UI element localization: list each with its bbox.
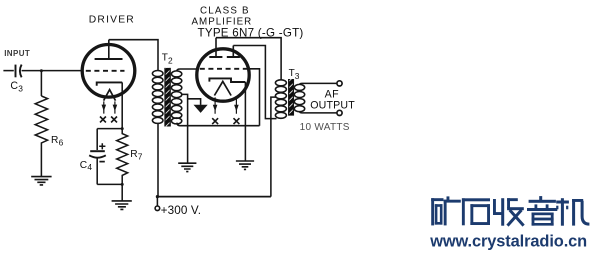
filament of driver xyxy=(104,90,116,101)
wire input stub xyxy=(3,70,13,72)
wire T2 secondary bottom to grid 2 xyxy=(177,123,260,126)
svg-text:7: 7 xyxy=(138,152,143,162)
wire T2 secondary top to grid xyxy=(177,69,198,71)
wire B+ rail xyxy=(157,196,271,198)
glyph YIN xyxy=(539,196,542,201)
capacitor C3 xyxy=(15,65,17,78)
grid of 6N7 (dashed) xyxy=(200,68,249,70)
resistor R7 xyxy=(117,129,128,185)
glyph SHOU xyxy=(493,199,496,215)
X mark heater 2 xyxy=(234,118,240,124)
ground (below R7) xyxy=(112,201,132,210)
plate 1 of 6N7 xyxy=(209,56,222,58)
wire cathode down to ground xyxy=(244,82,246,161)
svg-text:T: T xyxy=(162,53,168,64)
ground (below R6) xyxy=(31,177,51,185)
svg-text:T: T xyxy=(289,68,295,79)
chassis arrow xyxy=(194,105,208,113)
svg-text:AF: AF xyxy=(325,88,340,100)
wire T3 secondary bottom to terminal xyxy=(300,112,337,113)
glyph KUANG xyxy=(431,198,443,201)
wire plate1 to T3 primary top xyxy=(216,38,281,80)
transformer T3 core xyxy=(289,79,294,116)
tube V1 driver envelope xyxy=(82,45,135,98)
wire to ground xyxy=(121,184,123,200)
ground (cathode) xyxy=(236,161,254,169)
transformer T3 secondary xyxy=(294,84,304,90)
svg-text:INPUT: INPUT xyxy=(4,49,30,58)
transformer T2 primary xyxy=(152,71,163,77)
svg-text:+300 V.: +300 V. xyxy=(161,204,202,217)
wire network bottom xyxy=(97,183,122,185)
tube V2 class B envelope xyxy=(197,49,249,101)
wire junction down to R6 xyxy=(40,71,42,96)
resistor R6 xyxy=(35,96,47,148)
plate of driver xyxy=(95,58,123,60)
wire T2 center tap xyxy=(181,94,188,162)
X mark heater 1 xyxy=(212,118,218,124)
svg-text:10 WATTS: 10 WATTS xyxy=(300,122,350,133)
wire T2 primary bottom to B+ rail xyxy=(157,123,159,197)
wire plate 2 lead xyxy=(232,46,234,58)
svg-text:R: R xyxy=(130,149,137,160)
cathode of 6N7 xyxy=(209,78,245,82)
transformer T2 secondary xyxy=(171,71,181,77)
node junction C3/R6 xyxy=(40,69,43,72)
glyph JI xyxy=(556,201,569,204)
svg-text:C: C xyxy=(10,80,18,92)
watermark logo xyxy=(429,196,589,250)
svg-text:www.crystalradio.cn: www.crystalradio.cn xyxy=(429,232,587,250)
X mark heater 2 xyxy=(111,117,117,123)
svg-text:OUTPUT: OUTPUT xyxy=(310,100,355,112)
wire plate2 to T3 primary bottom xyxy=(233,46,276,119)
X mark heater 1 xyxy=(100,117,106,123)
transformer T3 primary xyxy=(275,80,286,86)
wire network top xyxy=(97,129,122,150)
node cathode network top xyxy=(121,127,124,130)
svg-text:DRIVER: DRIVER xyxy=(89,14,135,25)
wire R6 to ground xyxy=(40,148,42,176)
wire heater leads with arrows xyxy=(215,97,236,113)
svg-text:6: 6 xyxy=(59,137,64,147)
wire cathode down to bias network xyxy=(121,82,123,128)
terminal output top xyxy=(337,81,342,86)
plate 2 of 6N7 xyxy=(227,56,240,58)
wire plate 1 lead xyxy=(215,38,217,57)
glyph SHI xyxy=(462,198,490,201)
svg-text:C: C xyxy=(80,160,87,171)
plus sign C4 xyxy=(99,143,105,149)
node B+ xyxy=(156,195,159,198)
wire T3 center tap to B+ xyxy=(271,97,277,197)
wire center tap chassis branch xyxy=(188,99,201,105)
svg-text:4: 4 xyxy=(87,162,92,172)
svg-text:R: R xyxy=(51,135,58,146)
wire heater leads with arrows xyxy=(104,101,115,113)
grid of driver (dashed) xyxy=(86,70,125,72)
wire C3 to grid of driver xyxy=(22,70,83,72)
terminal B+ xyxy=(156,197,158,206)
wire plate lead up xyxy=(108,40,110,59)
filament of 6N7 xyxy=(214,81,231,95)
ground (center tap) xyxy=(178,163,196,171)
terminal output bottom xyxy=(337,110,342,115)
cathode of driver xyxy=(97,82,123,85)
transformer T2 core xyxy=(165,68,170,127)
wire T3 secondary top to terminal xyxy=(300,83,337,84)
wire driver plate to T2 primary xyxy=(109,40,158,71)
svg-text:3: 3 xyxy=(295,71,300,81)
node network bottom xyxy=(121,183,124,186)
wire grid right exit xyxy=(248,69,259,126)
svg-text:CLASS B: CLASS B xyxy=(200,6,250,17)
svg-text:2: 2 xyxy=(168,56,173,66)
svg-text:3: 3 xyxy=(18,84,23,94)
capacitor C4 xyxy=(90,150,105,152)
minus sign C4 xyxy=(99,161,104,163)
